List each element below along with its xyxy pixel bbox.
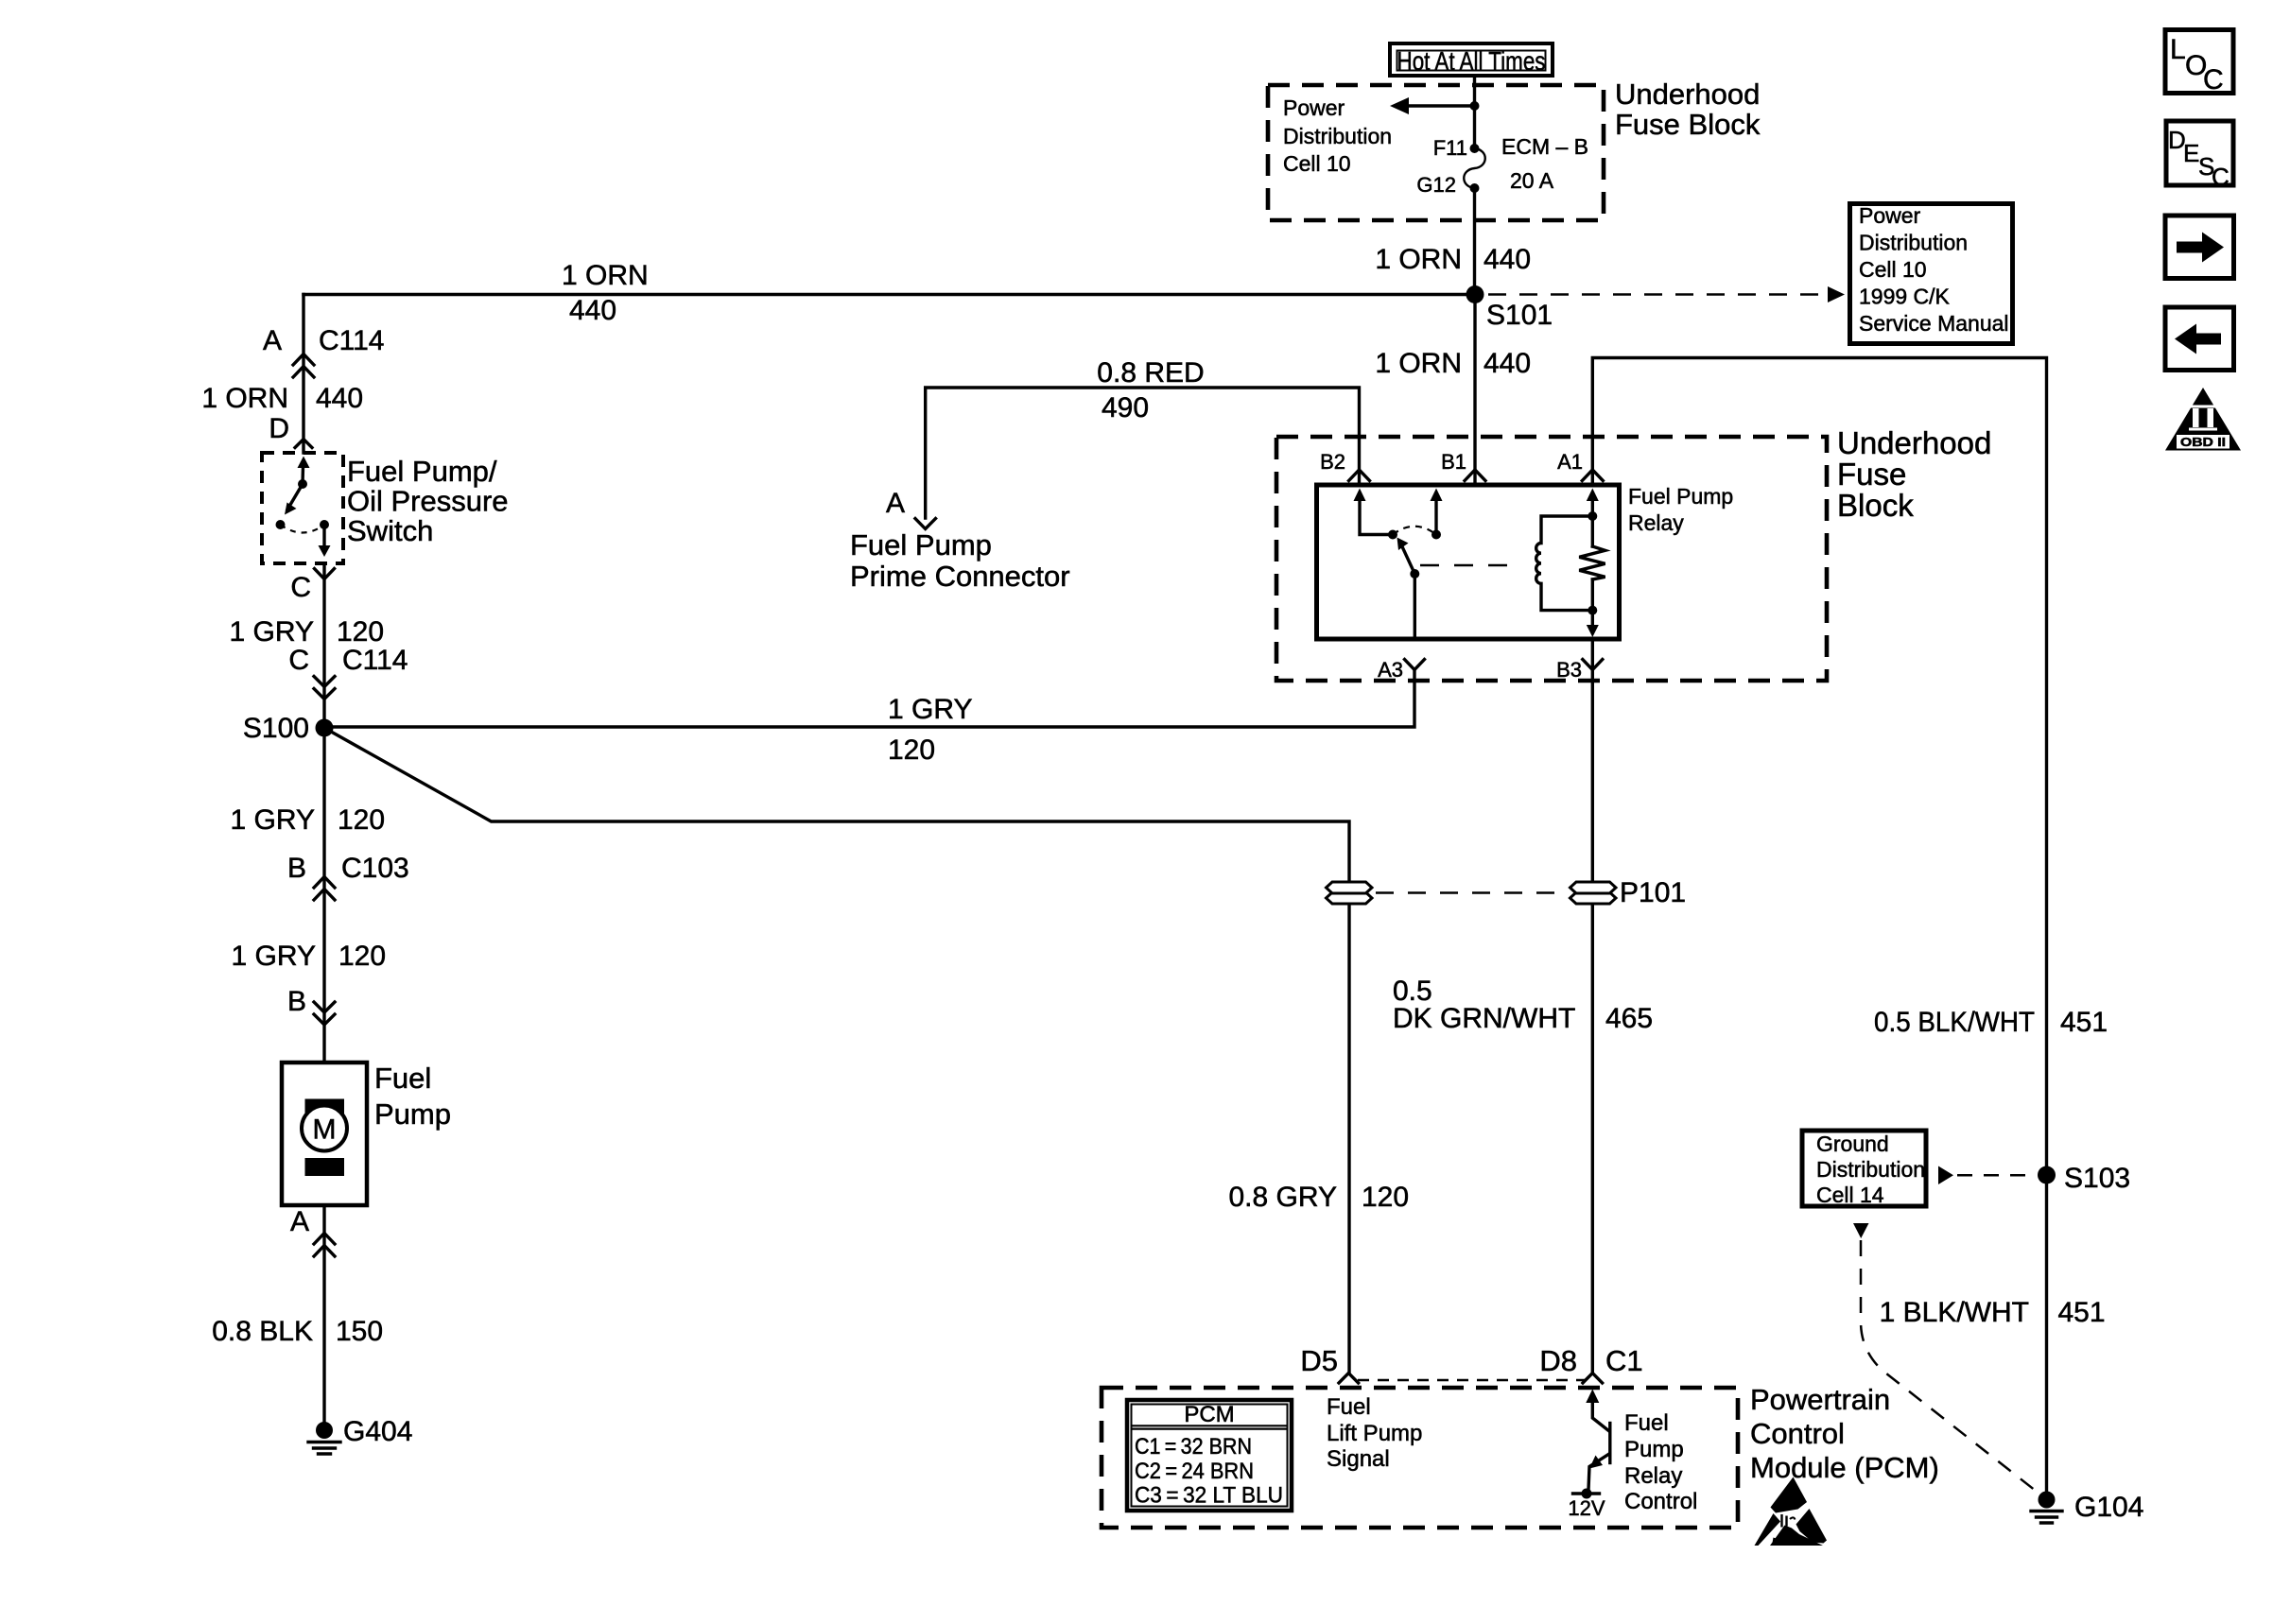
svg-text:Fuel: Fuel [1327,1394,1371,1420]
svg-text:1 ORN: 1 ORN [1375,244,1462,275]
terminal chevron D [295,440,312,448]
svg-text:Fuel: Fuel [374,1062,431,1095]
reference box: Ground Distribution Cell 14 [1802,1131,1926,1207]
svg-text:Control: Control [1624,1489,1697,1514]
dashed reference arrow to S103 [1938,1166,2036,1185]
icon: forward arrow box [2165,216,2234,279]
splice S103 [2038,1166,2056,1184]
svg-text:1 ORN: 1 ORN [201,383,288,414]
svg-text:C3 = 32 LT BLU: C3 = 32 LT BLU [1135,1483,1283,1509]
svg-text:Fuse Block: Fuse Block [1615,108,1761,141]
svg-text:A: A [886,488,905,519]
wire: left drop from 1 ORN 440 run down to switch [302,295,304,454]
connector C103 pin B (double chevron) [314,877,335,901]
svg-text:440: 440 [316,383,363,414]
svg-text:Cell 14: Cell 14 [1816,1183,1884,1207]
pin chevron B1 [1465,470,1485,481]
wire: D5 feed below grommet [1347,904,1350,1373]
svg-text:Relay: Relay [1628,510,1684,535]
dashed box: Powertrain Control Module (PCM) [1102,1388,1738,1528]
svg-text:C: C [2203,64,2224,95]
svg-text:Relay: Relay [1624,1463,1682,1489]
pin chevron A3 [1405,660,1425,670]
svg-text:Powertrain: Powertrain [1750,1383,1890,1416]
terminal chevron C (below switch) [315,569,335,579]
transistor Q1: fuel pump relay control driver [1573,1390,1610,1499]
reference box: Power Distribution Cell 10 1999 C/K Service Manual [1850,203,2013,344]
splice S100 [316,719,334,737]
svg-text:Underhood: Underhood [1837,425,1991,460]
PCM connector table [1127,1400,1292,1511]
svg-text:Hot At All Times: Hot At All Times [1397,46,1546,76]
relay coil L1 [1536,516,1593,611]
svg-text:L: L [2170,34,2186,65]
svg-text:Block: Block [1837,488,1914,523]
icon: DESC box [2166,121,2233,191]
svg-text:C: C [2212,163,2230,191]
grommet P101 (right half) [1570,882,1617,904]
icon: LOC box [2165,30,2233,96]
terminal chevron A (prime connector) [915,519,936,529]
svg-text:C103: C103 [341,853,409,884]
svg-text:120: 120 [888,734,935,766]
splice S101 [1466,285,1484,303]
svg-text:451: 451 [2060,1007,2108,1038]
svg-text:S100: S100 [243,713,309,744]
svg-text:120: 120 [338,941,386,972]
svg-text:C1: C1 [1605,1344,1643,1377]
svg-text:120: 120 [1362,1182,1409,1213]
svg-text:Power: Power [1283,95,1345,120]
svg-text:F11: F11 [1433,136,1467,160]
svg-text:12V: 12V [1568,1496,1605,1520]
svg-text:M: M [313,1114,337,1146]
svg-text:465: 465 [1605,1003,1653,1034]
dashed reference arrow from S101 to service manual note box [1488,286,1845,302]
svg-text:1 ORN: 1 ORN [562,260,649,291]
svg-text:A: A [263,325,282,356]
main horizontal wire from C114 corner to S101 [304,293,1475,296]
icon: OBD II triangle [2165,388,2241,451]
svg-text:E: E [2183,139,2199,167]
ground G104 [2031,1492,2062,1524]
relay U1: Fuel Pump Relay box [1317,485,1620,639]
connector C114 pin A (double chevron) [293,354,314,378]
svg-text:S103: S103 [2064,1163,2130,1194]
relay pivot dot [1388,530,1397,540]
dashed box: Underhood Fuse Block (relay) [1276,437,1827,681]
switch output arrow down [319,525,331,557]
wire: fuel pump to G404 [322,1205,325,1422]
wire: S100 diagonal branch to PCM D5 [324,728,1349,882]
junction dot at arrow branch [1470,101,1480,111]
svg-text:B: B [287,986,306,1017]
dashed link between grommet halves [1376,891,1567,894]
svg-text:C114: C114 [342,645,408,676]
svg-text:Fuse: Fuse [1837,457,1906,492]
svg-text:B: B [287,853,306,884]
dashed throw arc (relay contacts) [1393,527,1436,535]
thin dashed connector face line (D5 to C1) [1358,1379,1585,1381]
svg-text:B2: B2 [1320,450,1345,474]
svg-text:Distribution: Distribution [1816,1157,1925,1182]
svg-text:D5: D5 [1300,1344,1338,1377]
svg-text:0.8 GRY: 0.8 GRY [1228,1182,1337,1213]
svg-text:Cell 10: Cell 10 [1859,257,1927,282]
relay coil winding dot (bottom) [1588,606,1597,615]
svg-text:Fuel: Fuel [1624,1410,1669,1436]
ESD warning triangle [1755,1477,1828,1546]
wire: fuse G12 down to splice S101 [1473,188,1476,295]
switch pivot dot [298,479,307,489]
relay internal: B3 output arrow down [1587,611,1599,637]
relay internal: B1 contact arm [1431,489,1443,535]
svg-text:DK GRN/WHT: DK GRN/WHT [1393,1003,1575,1034]
svg-text:Fuel Pump: Fuel Pump [850,528,992,561]
dashed actuation link (coil to blade) [1420,564,1522,567]
fuse ECM-B 20A (F11/G12) [1464,144,1485,193]
svg-text:440: 440 [1484,244,1531,275]
svg-text:G12: G12 [1416,173,1456,197]
svg-text:0.8 RED: 0.8 RED [1097,357,1204,389]
svg-text:440: 440 [569,295,616,326]
pin chevron B2 [1349,470,1370,481]
svg-text:A: A [290,1206,309,1237]
svg-text:Fuel Pump: Fuel Pump [1628,484,1733,509]
svg-text:120: 120 [337,616,384,648]
svg-text:Power: Power [1859,203,1921,228]
dashed throw arc between contacts [281,525,325,533]
svg-text:C: C [288,645,309,676]
svg-text:G404: G404 [343,1416,412,1447]
svg-text:0.5 BLK/WHT: 0.5 BLK/WHT [1874,1007,2035,1038]
switch contact dot (right) [320,520,329,529]
ground G404 [308,1422,340,1454]
svg-text:1 GRY: 1 GRY [231,804,316,836]
pin chevron B3 [1583,660,1603,670]
wire: S100 to relay pin A3 (horizontal run) [324,670,1414,727]
svg-text:S101: S101 [1486,300,1553,331]
wire: A1 post through resistor [1591,516,1594,611]
connector pin B chevrons (double) [314,1002,335,1025]
svg-text:G104: G104 [2074,1492,2143,1523]
svg-text:A3: A3 [1378,658,1403,682]
wire: B3 down through P101 to PCM D8 [1591,639,1594,1373]
wire: relay A1 up and over to right side run [1592,358,2046,1500]
pin chevron D5 [1339,1373,1359,1384]
relay B1 contact dot [1431,530,1441,540]
svg-text:Distribution: Distribution [1859,231,1968,255]
svg-text:150: 150 [336,1316,383,1347]
svg-text:A1: A1 [1557,450,1583,474]
svg-text:Signal: Signal [1327,1446,1390,1472]
svg-text:Ground: Ground [1816,1132,1889,1156]
svg-text:Fuel Pump/: Fuel Pump/ [347,455,497,488]
icon: back arrow box [2165,307,2234,371]
svg-text:1 GRY: 1 GRY [888,694,973,725]
svg-text:Module (PCM): Module (PCM) [1750,1451,1939,1484]
svg-text:1 GRY: 1 GRY [230,616,315,648]
svg-text:440: 440 [1484,348,1531,379]
grommet P101 (left half) [1327,882,1373,904]
switch internals: pin D arrow [298,457,310,485]
wire: S100 down to fuel pump [322,728,325,1063]
svg-text:Cell 10: Cell 10 [1283,151,1351,176]
pin chevron D8/C1 [1583,1373,1603,1384]
svg-text:Service Manual: Service Manual [1859,311,2009,336]
svg-text:B3: B3 [1556,658,1582,682]
svg-text:Underhood: Underhood [1615,78,1760,111]
svg-text:PCM: PCM [1184,1402,1234,1427]
svg-text:Switch: Switch [347,514,433,547]
svg-text:451: 451 [2058,1297,2106,1328]
svg-text:C114: C114 [319,325,385,356]
svg-text:B1: B1 [1441,450,1466,474]
arrow branch to power distribution (left arrow) [1390,97,1475,114]
svg-text:490: 490 [1102,392,1149,423]
relay movable blade with arrowhead [1397,538,1415,575]
relay internal: B2 contact arm [1354,489,1394,535]
switch blade with arrowhead [285,484,303,515]
svg-text:1 BLK/WHT: 1 BLK/WHT [1880,1297,2029,1328]
power label box "Hot At All Times" [1390,43,1553,76]
svg-text:Oil Pressure: Oil Pressure [347,485,509,518]
svg-text:1 GRY: 1 GRY [232,941,317,972]
dashed box: Fuel Pump / Oil Pressure Switch [262,453,343,563]
svg-text:20 A: 20 A [1510,168,1554,193]
svg-text:P101: P101 [1620,877,1686,908]
dashed reference arrow from Ground Distribution down to G104 [1853,1223,2040,1494]
svg-text:C: C [290,572,311,603]
svg-text:Lift Pump: Lift Pump [1327,1421,1422,1446]
connector pin A chevrons (double) [314,1234,335,1257]
relay coil winding dot (top) [1588,511,1597,521]
wire: switch to S100 [322,563,325,728]
wire: fuel pump prime connector feed to relay B2 [926,388,1360,518]
svg-text:Pump: Pump [374,1097,451,1131]
wire: battery feed from Hot At All Times box down to fuse F11 [1473,78,1476,148]
svg-text:0.8 BLK: 0.8 BLK [212,1316,313,1347]
svg-text:Pump: Pump [1624,1437,1684,1462]
wire: S101 down to relay pin B1 [1473,295,1476,486]
relay resistor R1 (zigzag) [1579,546,1605,579]
svg-text:Prime Connector: Prime Connector [850,560,1070,593]
svg-text:C1 = 32 BRN: C1 = 32 BRN [1135,1434,1252,1460]
connector C114 pin C (double chevron) [314,677,335,700]
relay blade contact dot [1410,569,1419,579]
pin chevron A1 [1582,470,1603,481]
wire: blade contact down to A3 [1414,574,1416,639]
svg-text:Control: Control [1750,1417,1845,1450]
switch contact dot (left) [276,520,286,529]
fuel pump M1 [282,1063,367,1205]
svg-text:Distribution: Distribution [1283,124,1392,148]
relay internal: A1 feed arrow [1587,489,1599,517]
svg-text:D8: D8 [1539,1344,1577,1377]
svg-text:D: D [269,413,289,444]
svg-text:1999 C/K: 1999 C/K [1859,285,1951,309]
svg-text:1 ORN: 1 ORN [1375,348,1462,379]
svg-text:OBD II: OBD II [2180,435,2226,449]
svg-text:C2 = 24 BRN: C2 = 24 BRN [1135,1459,1254,1484]
svg-text:ECM – B: ECM – B [1501,134,1588,159]
dashed box: Underhood Fuse Block (Power Distribution Cell 10) [1268,85,1604,220]
svg-text:120: 120 [338,804,385,836]
